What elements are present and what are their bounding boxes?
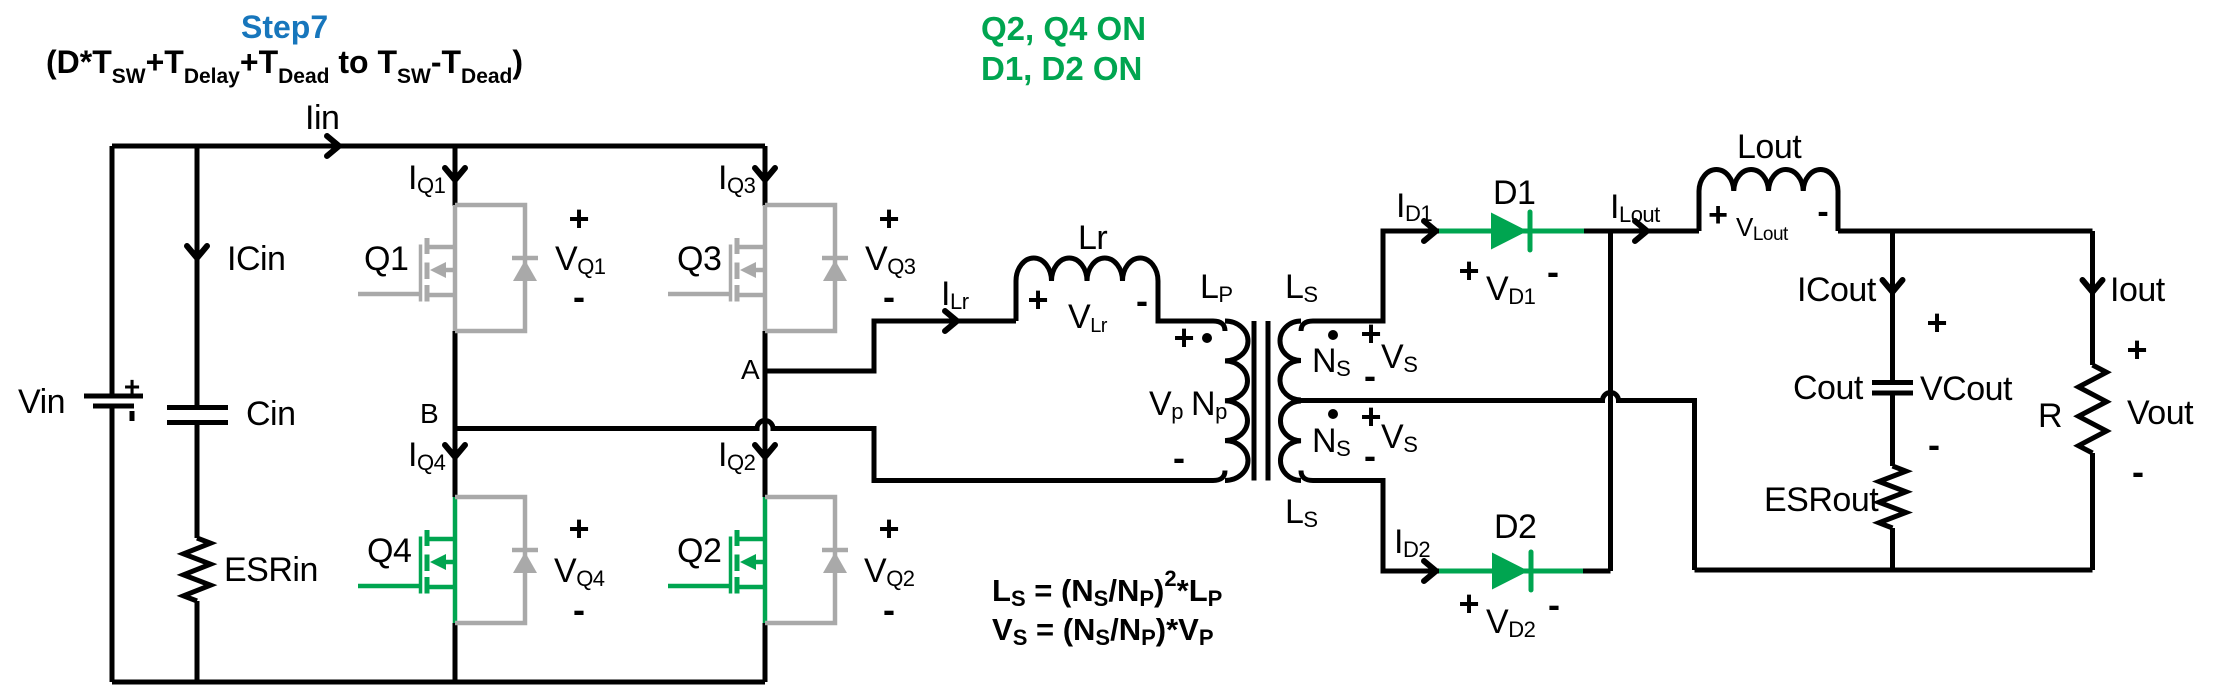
wire D1 green segment: [1439, 229, 1584, 234]
diode D1: [1491, 213, 1528, 250]
arrow ICin: [187, 246, 207, 258]
transistor Q4: [358, 497, 538, 623]
svg-text:VD1: VD1: [1486, 270, 1536, 309]
svg-text:ID1: ID1: [1396, 187, 1432, 226]
svg-text:+: +: [1926, 302, 1947, 343]
svg-text:VD2: VD2: [1486, 603, 1536, 642]
inductor Lr: [1014, 281, 1019, 321]
svg-text:Cin: Cin: [246, 395, 296, 433]
svg-text:D1: D1: [1493, 174, 1535, 212]
polarity dot primary: [1202, 333, 1212, 343]
resistor ESRin: [184, 538, 211, 601]
diode D2: [1492, 553, 1529, 590]
wire center tap return with hop: [1296, 393, 1695, 571]
svg-text:Iout: Iout: [2110, 271, 2166, 309]
svg-text:ESRout: ESRout: [1764, 481, 1879, 519]
svg-text:+: +: [568, 198, 589, 239]
arrow ILout: [1635, 221, 1647, 241]
svg-text:+: +: [124, 371, 140, 402]
wire Cout branch: [1890, 231, 1895, 570]
wire Lout to load: [1838, 229, 2093, 234]
svg-text:Iin: Iin: [305, 99, 339, 137]
svg-text:VLout: VLout: [1736, 212, 1789, 245]
wire node A to Lr: [765, 321, 1016, 371]
transformer secondary upper winding Ls: [1280, 321, 1301, 400]
arrow IQ3: [755, 168, 775, 180]
wire D2 green segment: [1439, 569, 1583, 574]
svg-text:+: +: [878, 198, 899, 239]
svg-text:ILout: ILout: [1610, 188, 1660, 227]
svg-text:VCout: VCout: [1920, 370, 2013, 408]
svg-text:ICout: ICout: [1797, 271, 1877, 309]
wire Cin branch: [195, 146, 200, 682]
svg-text:Q4: Q4: [367, 532, 411, 570]
svg-text:VQ2: VQ2: [864, 552, 915, 591]
wire D1 cathode to Lout: [1584, 229, 1699, 234]
arrow ID1: [1424, 221, 1436, 241]
svg-text:Vin: Vin: [18, 383, 65, 421]
svg-text:IQ4: IQ4: [408, 436, 446, 475]
svg-text:Vp: Vp: [1149, 385, 1183, 424]
arrow Iin: [327, 136, 339, 156]
svg-text:VQ3: VQ3: [865, 240, 916, 279]
svg-text:+: +: [568, 508, 589, 549]
wire bottom rail: [112, 680, 765, 685]
svg-text:VS: VS: [1381, 418, 1417, 457]
svg-text:NS: NS: [1312, 422, 1350, 461]
svg-text:-: -: [573, 589, 585, 630]
wire Q3/Q2 branch: [763, 146, 768, 682]
svg-text:-: -: [1364, 435, 1376, 476]
wire load branch: [2090, 231, 2095, 570]
polarity dot secondary lower: [1328, 409, 1338, 419]
wire secondary bottom to D2: [1301, 471, 1439, 572]
svg-text:LS: LS: [1285, 268, 1318, 307]
svg-text:-: -: [1928, 424, 1940, 465]
wire left vertical (Vin branch): [110, 146, 115, 682]
resistor R load: [2079, 365, 2107, 453]
svg-text:Np: Np: [1191, 385, 1227, 424]
transformer primary winding Lp: [1225, 321, 1248, 481]
inductor Lout: [1697, 191, 1702, 231]
arrow IQ4: [445, 445, 465, 457]
svg-text:Cout: Cout: [1793, 369, 1864, 407]
svg-text:D2: D2: [1494, 508, 1536, 546]
svg-text:NS: NS: [1312, 342, 1350, 381]
svg-text:Lout: Lout: [1737, 128, 1802, 166]
arrow Iout: [2083, 280, 2103, 292]
svg-text:-: -: [883, 589, 895, 630]
svg-text:ESRin: ESRin: [224, 551, 318, 589]
svg-text:Q3: Q3: [677, 240, 721, 278]
svg-text:-: -: [1817, 193, 1828, 231]
svg-text:+: +: [1458, 583, 1479, 624]
wire secondary top to D1: [1301, 231, 1439, 331]
svg-text:VQ4: VQ4: [554, 552, 605, 591]
svg-text:+: +: [1173, 317, 1194, 358]
svg-text:D1, D2 ON: D1, D2 ON: [981, 50, 1142, 87]
svg-text:-: -: [1173, 437, 1185, 478]
arrow IQ2: [755, 445, 775, 457]
wire node B with hop over Q3 branch: [455, 421, 1225, 481]
wire D2 cathode to junction: [1583, 569, 1611, 574]
transformer core: [1254, 321, 1268, 481]
svg-text:Q1: Q1: [364, 240, 408, 278]
transistor Q2: [668, 497, 848, 623]
svg-text:Lr: Lr: [1078, 219, 1107, 257]
transformer secondary lower winding Ls: [1280, 401, 1301, 481]
svg-text:LS = (NS/NP)2*LP: LS = (NS/NP)2*LP: [992, 566, 1222, 611]
svg-text:-: -: [2132, 451, 2144, 492]
resistor ESRout: [1879, 466, 1906, 528]
svg-text:-: -: [883, 276, 895, 317]
svg-text:+: +: [1708, 196, 1728, 234]
svg-text:-: -: [573, 276, 585, 317]
svg-text:IQ3: IQ3: [718, 159, 756, 198]
arrow ID2: [1424, 561, 1436, 581]
svg-text:+: +: [1027, 279, 1048, 320]
svg-text:ID2: ID2: [1394, 523, 1430, 562]
arrow ILr: [945, 311, 957, 331]
svg-text:-: -: [1547, 251, 1559, 292]
svg-text:IQ2: IQ2: [718, 436, 756, 475]
svg-text:+: +: [878, 508, 899, 549]
polarity dot secondary upper: [1328, 330, 1338, 340]
svg-text:ILr: ILr: [941, 275, 969, 314]
wire top rail: [112, 144, 765, 149]
svg-text:R: R: [2038, 397, 2062, 435]
svg-text:VLr: VLr: [1068, 298, 1108, 337]
wire Q1/Q4 branch: [453, 146, 458, 682]
svg-text:-: -: [1136, 280, 1148, 321]
svg-text:-: -: [1548, 584, 1560, 625]
svg-text:(D*TSW+TDelay+TDead to TSW-TDe: (D*TSW+TDelay+TDead to TSW-TDead): [46, 44, 523, 88]
arrow ICout: [1883, 280, 1903, 292]
capacitor Cout: [1872, 383, 1913, 394]
svg-text:Vout: Vout: [2127, 394, 2194, 432]
svg-text:VS: VS: [1381, 338, 1417, 377]
wire D1-D2 cathode junction vertical: [1608, 231, 1613, 571]
transistor Q3: [668, 205, 848, 331]
svg-text:+: +: [1458, 250, 1479, 291]
svg-text:A: A: [741, 354, 760, 385]
svg-text:Q2, Q4 ON: Q2, Q4 ON: [981, 10, 1146, 47]
wire output bottom rail: [1695, 568, 2093, 573]
svg-text:B: B: [420, 398, 438, 429]
capacitor Cin: [167, 408, 228, 423]
svg-text:ICin: ICin: [227, 240, 285, 278]
battery Vin: [84, 394, 143, 399]
svg-text:Q2: Q2: [677, 532, 721, 570]
arrow IQ1: [445, 168, 465, 180]
svg-text:Step7: Step7: [241, 9, 328, 45]
svg-text:VQ1: VQ1: [555, 240, 606, 279]
svg-text:LP: LP: [1200, 268, 1233, 307]
transistor Q1: [358, 205, 538, 331]
svg-text:+: +: [2126, 329, 2147, 370]
svg-text:VS = (NS/NP)*VP: VS = (NS/NP)*VP: [992, 612, 1214, 650]
svg-text:-: -: [1364, 355, 1376, 396]
svg-text:IQ1: IQ1: [408, 159, 446, 198]
svg-text:LS: LS: [1285, 493, 1318, 532]
